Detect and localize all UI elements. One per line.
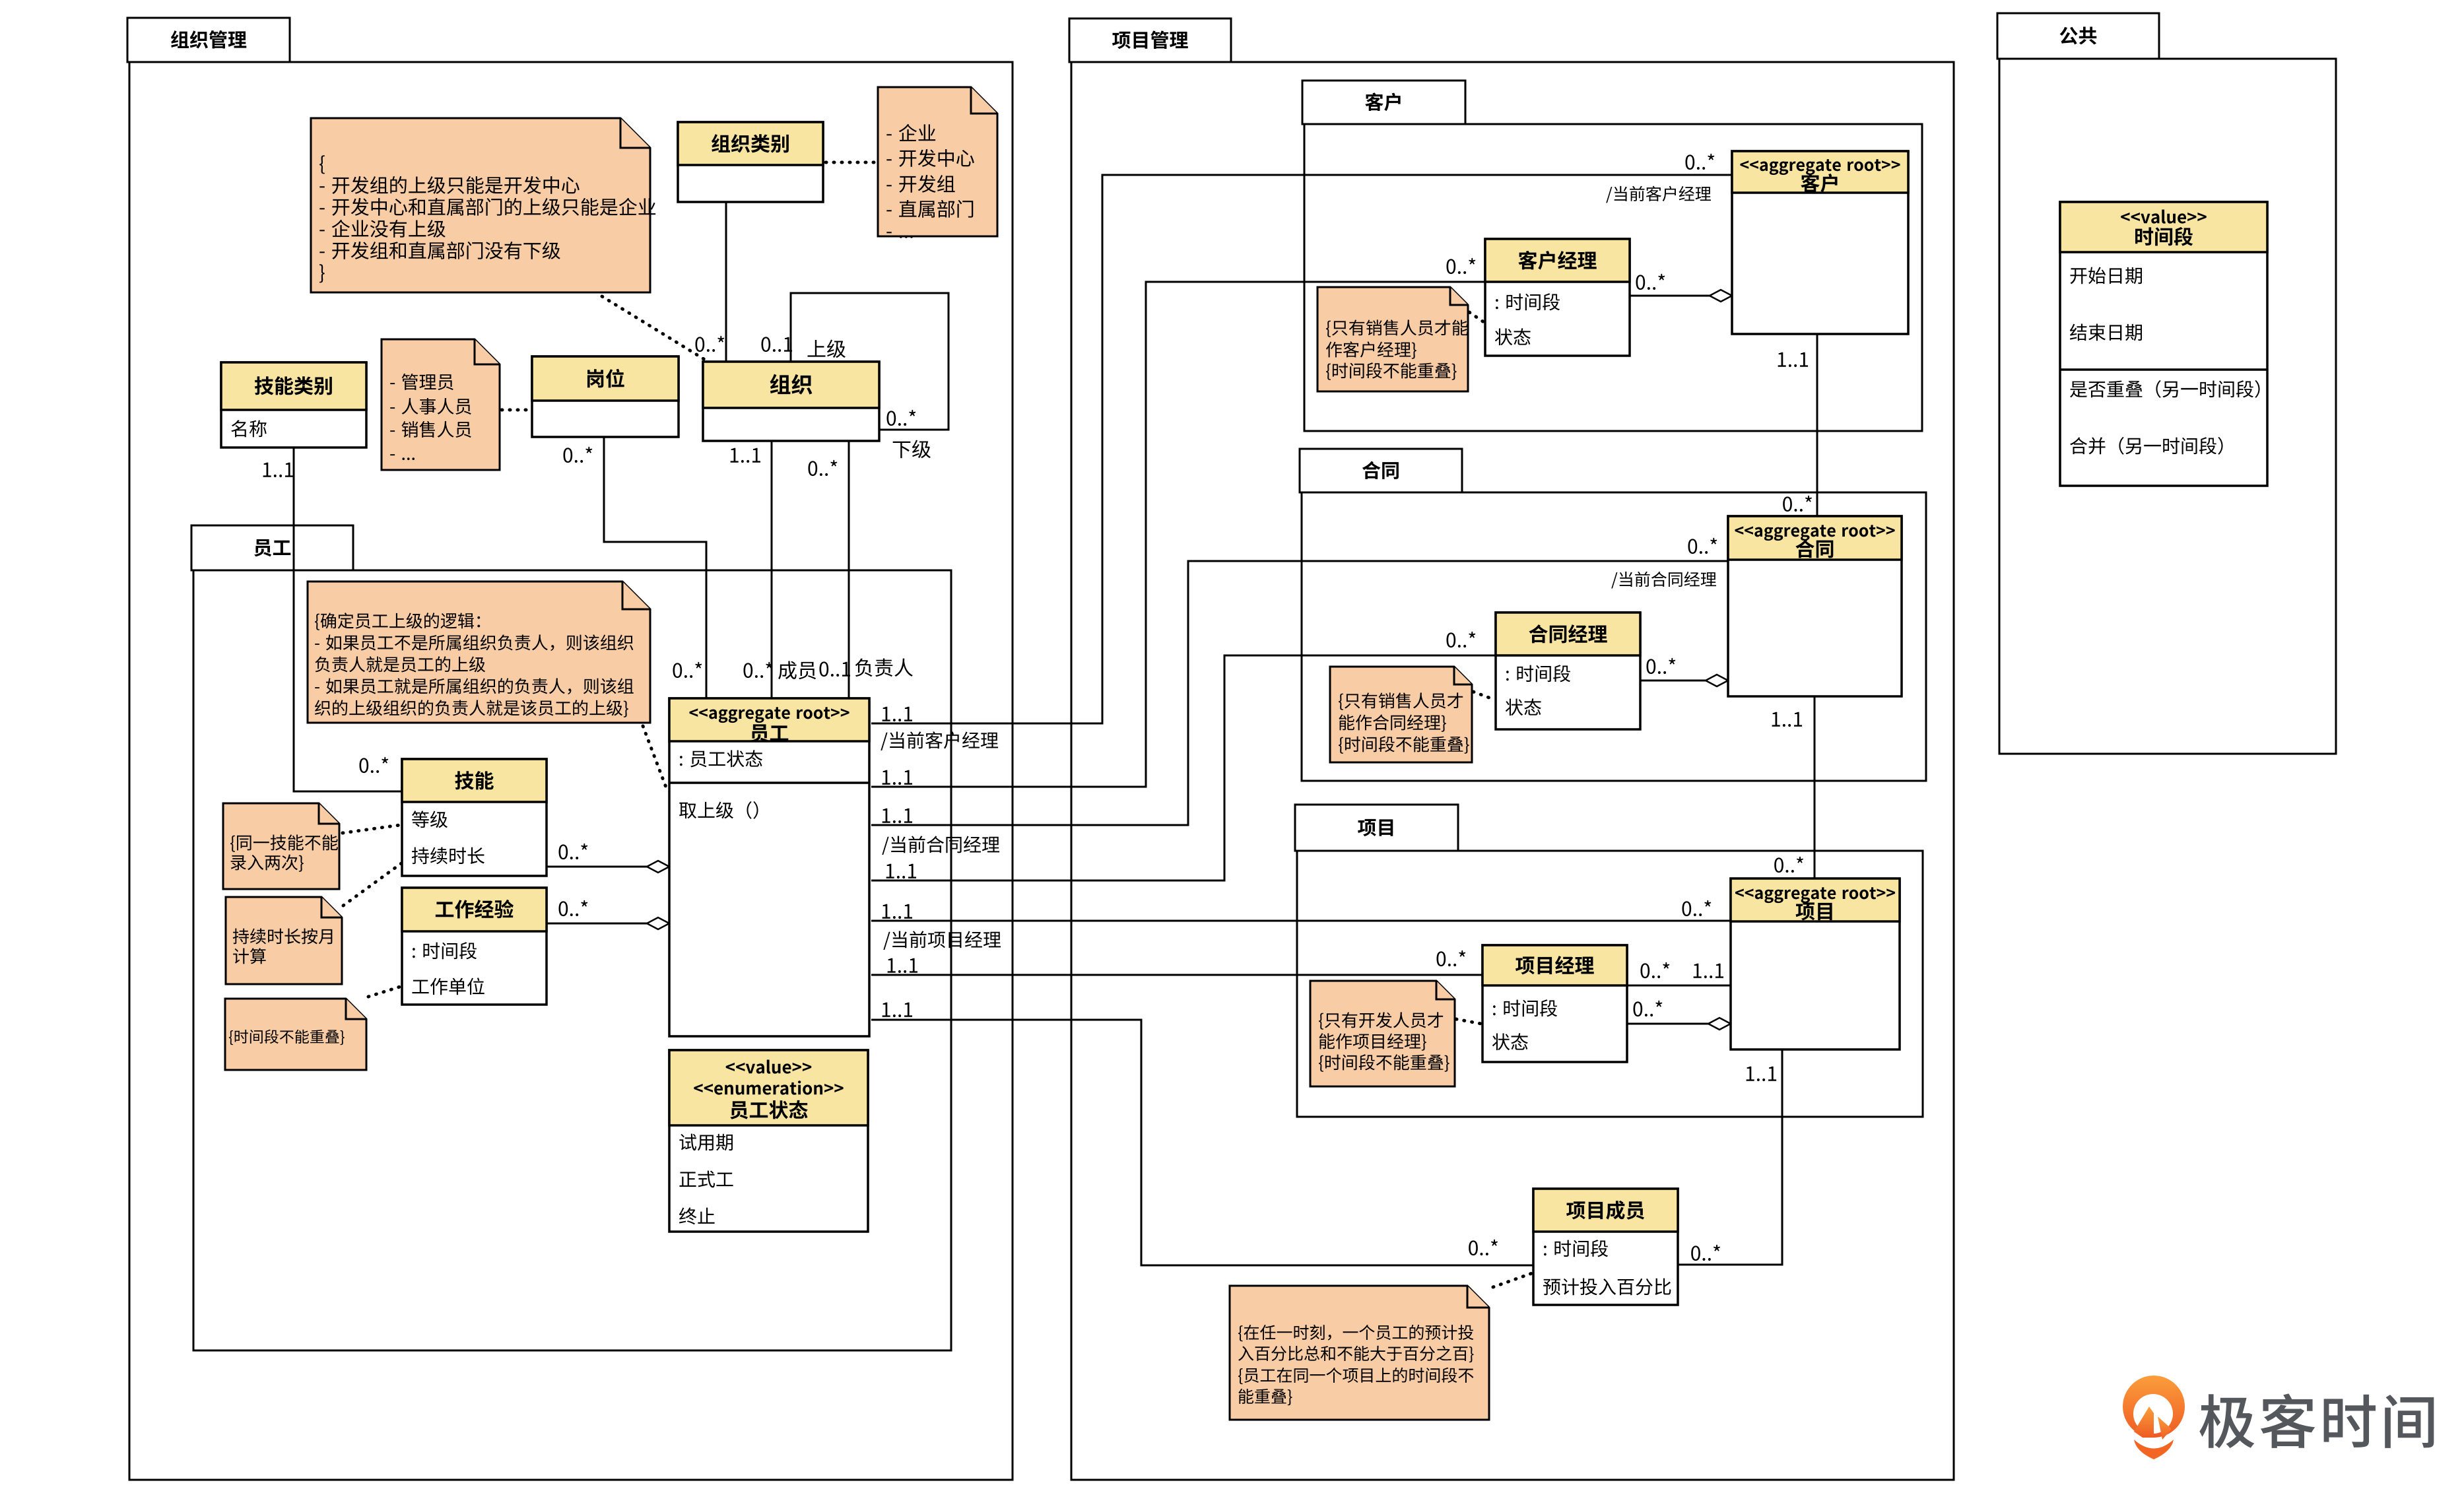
association 项目-项目成员 — [1678, 1049, 1782, 1265]
package 员工 — [191, 525, 951, 1350]
class 合同经理 — [1496, 613, 1640, 729]
note 只有开发人员才能作项目经理 — [1310, 981, 1455, 1086]
association 员工-合同经理 — [871, 632, 1496, 880]
package 项目 — [1295, 805, 1923, 1117]
class 技能 — [402, 759, 547, 876]
note link 确定员工上级-员工 — [643, 726, 667, 791]
association 组织-员工 负责人 — [809, 441, 913, 698]
note 岗位列表 — [382, 339, 500, 470]
association 员工-客户经理 — [871, 258, 1485, 787]
association 员工-合同 /当前合同经理 — [871, 538, 1728, 855]
association 组织类别-组织 — [621, 202, 726, 362]
note link 组织规则-组织 — [602, 296, 705, 360]
association 技能类别-技能 — [263, 448, 402, 791]
aggregation 合同经理-合同 — [1640, 658, 1728, 686]
association 合同-项目 — [1772, 696, 1815, 879]
association 组织 self 上级/下级 — [762, 293, 949, 458]
association 组织-员工 成员 — [731, 441, 816, 698]
package 合同 — [1300, 449, 1926, 781]
association 客户-合同 — [1778, 334, 1817, 516]
note 同一技能不能录入两次 — [223, 803, 339, 889]
association 岗位-员工 — [564, 437, 707, 698]
package 客户 — [1302, 81, 1922, 431]
note 确定员工上级逻辑 — [308, 581, 650, 723]
note link 技能-等级 — [343, 825, 400, 833]
class 工作经验 — [402, 888, 547, 1005]
note 只有销售人员才能作合同经理 — [1330, 667, 1472, 762]
association 员工-项目 /当前项目经理 — [871, 900, 1731, 950]
aggregation 项目经理-项目 — [1627, 1001, 1731, 1030]
class 客户经理 — [1485, 239, 1630, 356]
class 项目成员 — [1533, 1189, 1678, 1305]
note 预计投入约束 — [1230, 1286, 1489, 1420]
note link 组织类别 — [826, 161, 877, 164]
note 组织上级规则 — [311, 118, 655, 292]
class 组织 — [703, 362, 879, 441]
association 项目经理-项目 — [1627, 962, 1731, 985]
class 技能类别 — [221, 362, 366, 448]
association 员工-项目成员 — [871, 1003, 1533, 1265]
class 项目 — [1731, 879, 1900, 1049]
note 组织类别列表 — [878, 87, 997, 238]
aggregation 工作经验-员工 — [547, 900, 669, 929]
class 合同 — [1728, 516, 1902, 696]
note link 项目经理 — [1456, 1019, 1481, 1024]
note link 持续时长-技能 — [343, 863, 401, 906]
association 员工-客户 /当前客户经理 — [871, 154, 1732, 750]
logo 极客时间 — [2123, 1376, 2434, 1459]
aggregation 技能-员工 — [547, 844, 669, 873]
package 公共 — [1997, 13, 2336, 754]
association 员工-项目经理 — [871, 950, 1482, 975]
class 项目经理 — [1482, 945, 1627, 1062]
class 时间段 — [2060, 202, 2267, 486]
class 员工状态 — [669, 1050, 868, 1232]
note 只有销售人员才能作客户经理 — [1317, 287, 1468, 391]
note link 时间段不能重叠-工作经验 — [368, 987, 400, 997]
note link 项目成员 — [1493, 1273, 1532, 1287]
note 持续时长按月计算 — [226, 897, 342, 984]
note link 客户经理 — [1469, 312, 1484, 322]
class 组织类别 — [678, 122, 823, 202]
class 岗位 — [532, 356, 679, 437]
class 员工 — [669, 698, 869, 1036]
class 客户 — [1732, 151, 1908, 334]
note 时间段不能重叠 — [225, 999, 366, 1070]
note link 合同经理 — [1473, 692, 1494, 700]
package 项目管理 — [1069, 18, 1954, 1480]
package 组织管理 — [127, 18, 1013, 1480]
note link 岗位 — [502, 409, 531, 412]
aggregation 客户经理-客户 — [1630, 274, 1732, 302]
